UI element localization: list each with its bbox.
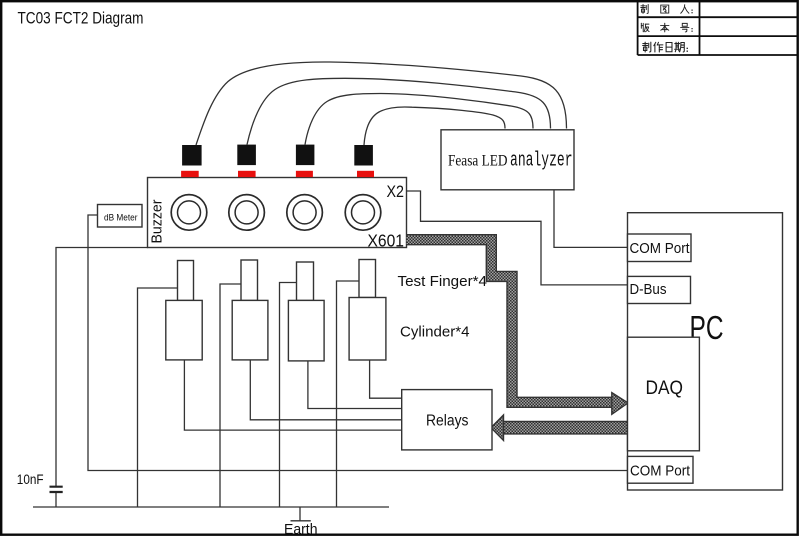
capacitor C1 value label 10nF (17, 472, 44, 487)
wire: cylinder 2 to Relays (250, 360, 401, 420)
connector label X2 (387, 182, 405, 201)
table row2 colon (691, 28, 692, 32)
svg-text:dB Meter: dB Meter (104, 212, 138, 223)
fibre wire: probe 1 to analyzer (196, 62, 567, 145)
cylinder 2 (232, 300, 268, 360)
title text (18, 9, 144, 27)
table row3 colon (687, 48, 688, 52)
wire: dB Meter to COM Port 2 (88, 215, 628, 471)
wire: test finger 3 to ground bus (280, 283, 297, 508)
wire: cylinder 1 to Relays (184, 360, 401, 430)
LED probe 4 (black square) (354, 145, 373, 166)
svg-text:Feasa LED: Feasa LED (448, 153, 508, 170)
PC box (628, 213, 783, 490)
table row1 label: zhi (制) (641, 4, 648, 13)
buzzer 1 (double circle) (171, 195, 207, 231)
LED window 3 (red strip) (296, 171, 313, 177)
wire: cylinder 3 to Relays (308, 360, 402, 409)
table row3 label: qi (期) (675, 42, 685, 52)
PC label (690, 309, 724, 346)
buzzer 4 (double circle) (345, 195, 381, 231)
dB Meter box (98, 205, 143, 228)
ground label Earth (284, 521, 318, 537)
ground symbol Earth (291, 507, 311, 521)
table row2 label: ben (本) (661, 23, 669, 32)
D-Bus box (628, 276, 691, 303)
wire: Feasa analyzer to COM Port 1 (554, 190, 628, 247)
LED probe 3 (black square) (296, 145, 315, 166)
ribbon cable: DAQ to Relays (503, 421, 628, 435)
table row1 colon (691, 10, 692, 14)
table row2 label: hao (号) (681, 23, 689, 32)
svg-text:COM Port: COM Port (630, 240, 691, 257)
table row3 label: zuo (作) (654, 42, 663, 52)
svg-text:analyzer: analyzer (510, 150, 573, 173)
test finger 3 (297, 262, 314, 301)
LED probe 1 (black square) (182, 145, 202, 166)
buzzer 3 (double circle) (287, 195, 323, 231)
fibre wire: probe 2 to analyzer (247, 78, 551, 144)
table row3 label: ri (日) (666, 43, 672, 52)
svg-text:X2: X2 (387, 182, 405, 201)
svg-text:10nF: 10nF (17, 472, 44, 487)
ribbon cable: X601 to DAQ (407, 240, 612, 403)
cylinder 4 (349, 298, 386, 361)
wire: test finger 1 to ground bus (138, 288, 178, 507)
table row2 label: ban (版) (641, 23, 649, 32)
table row1 label: tu (图) (661, 5, 669, 13)
wire: test finger 2 to ground bus (220, 284, 241, 507)
cylinder 1 (166, 300, 202, 360)
ground bus wire (33, 506, 389, 508)
arrowhead into DAQ (612, 393, 628, 415)
wire: buzzer bottom-left to 10nF capacitor (56, 248, 148, 508)
Relays box (402, 390, 492, 450)
svg-text:Test Finger*4: Test Finger*4 (398, 273, 488, 290)
test finger 2 (241, 260, 258, 301)
cylinder 3 (288, 300, 324, 361)
svg-text:D-Bus: D-Bus (630, 281, 667, 298)
svg-text:X601: X601 (368, 231, 405, 251)
label Buzzer (rotated) (149, 199, 166, 243)
svg-text:Buzzer: Buzzer (149, 199, 166, 243)
buzzer 2 (double circle) (229, 195, 265, 231)
fibre wire: probe 3 to analyzer (305, 94, 533, 145)
COM Port 2 box (628, 456, 694, 483)
label Cylinder*4 (400, 323, 470, 340)
connector label X601 (368, 231, 405, 251)
LED window 2 (red strip) (238, 171, 256, 177)
test finger 1 (178, 261, 194, 301)
arrowhead into Relays (491, 415, 504, 441)
svg-text:Cylinder*4: Cylinder*4 (400, 323, 470, 340)
wire: cylinder 4 to Relays (370, 360, 402, 398)
Feasa LED analyzer box (441, 130, 574, 190)
buzzer fixture box (148, 178, 407, 248)
table row3 label: zhi (制) (643, 42, 651, 52)
fibre wire: probe 4 to analyzer (364, 107, 505, 145)
LED window 1 (red strip) (181, 171, 199, 177)
svg-text:COM Port: COM Port (630, 462, 691, 479)
title block table (638, 2, 798, 55)
wire: test finger 4 to ground bus (337, 281, 360, 507)
LED probe 2 (black square) (237, 145, 256, 166)
DAQ box (628, 337, 700, 451)
svg-text:DAQ: DAQ (646, 378, 684, 399)
COM Port 1 box (628, 234, 692, 262)
table row1 label: ren (人) (681, 5, 689, 14)
svg-text:Relays: Relays (426, 412, 469, 429)
label Test Finger*4 (398, 273, 488, 290)
svg-text:Earth: Earth (284, 521, 318, 537)
svg-text:TC03 FCT2 Diagram: TC03 FCT2 Diagram (18, 9, 144, 27)
wire: X2 to D-Bus (407, 191, 628, 285)
test finger 4 (359, 260, 376, 298)
capacitor C1 10nF plates (50, 487, 63, 492)
LED window 4 (red strip) (357, 171, 374, 177)
